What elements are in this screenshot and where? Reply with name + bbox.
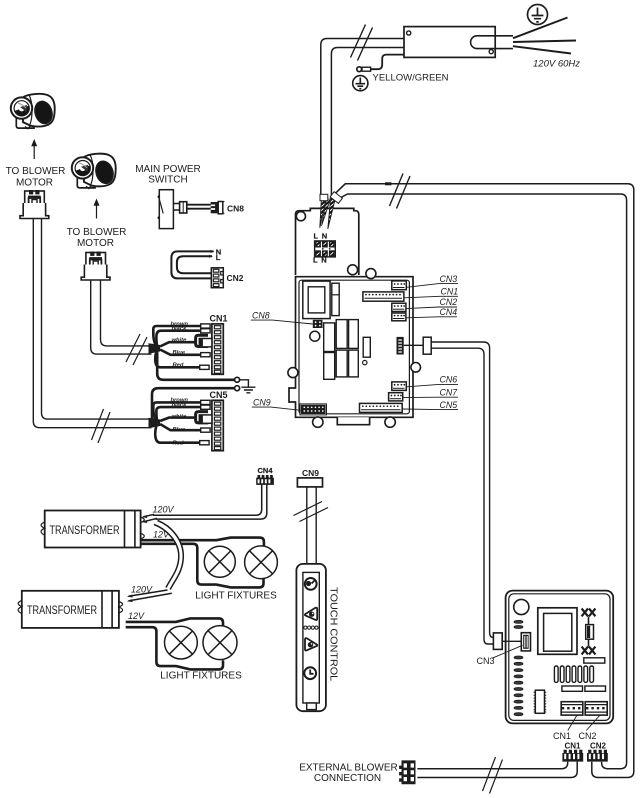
twisted supply wire a	[320, 197, 327, 228]
crystal component	[582, 609, 596, 655]
mounting hole bottom 2	[385, 417, 395, 427]
icon power	[305, 578, 317, 590]
svg-text:N: N	[322, 232, 327, 241]
tick on upper right wire	[385, 182, 392, 185]
mounting hole A	[348, 265, 358, 275]
transformer on PCB	[303, 281, 330, 319]
connector CN9 on PCB	[300, 404, 327, 415]
wire black CN5	[156, 407, 200, 420]
relay B2	[336, 350, 347, 377]
pin red CN5	[200, 441, 209, 445]
wire blue CN5	[160, 424, 201, 430]
svg-text:CN8: CN8	[252, 310, 270, 320]
connector CN4 on PCB	[392, 313, 406, 321]
svg-text:TRANSFORMER: TRANSFORMER	[27, 603, 97, 617]
label CN4 italic with leader	[406, 307, 457, 318]
cable grommet	[471, 36, 513, 49]
switch stem	[173, 204, 179, 211]
svg-text:Blue: Blue	[173, 350, 186, 356]
svg-text:MOTOR: MOTOR	[77, 238, 114, 249]
svg-text:CN2: CN2	[579, 731, 597, 741]
pads top	[514, 620, 523, 628]
SECTION: top power entry	[321, 5, 634, 778]
mounting hole top box	[296, 212, 305, 221]
mounting hole bottom 1	[313, 417, 323, 427]
lamp 2b	[203, 626, 237, 660]
pin black	[201, 329, 210, 333]
connector CN3 on PCB	[392, 281, 407, 290]
blower motor 2	[72, 154, 116, 189]
main PCB outer	[289, 277, 413, 418]
svg-text:CN5: CN5	[210, 390, 228, 400]
cable break marks top	[351, 25, 373, 61]
mounting hole left	[288, 368, 298, 378]
display square outer	[538, 608, 577, 655]
break marks ext wires	[483, 757, 503, 794]
svg-text:white: white	[172, 414, 188, 420]
ring terminal	[362, 67, 371, 71]
power entry box	[404, 27, 495, 58]
wire sleeve	[320, 194, 328, 200]
pin white terminal CN5	[199, 415, 212, 423]
connector CN1 external	[562, 750, 583, 762]
wire blue CN1	[160, 350, 201, 355]
resistor array	[554, 666, 593, 682]
wires CN1 ext to external blower	[417, 762, 567, 769]
jumper loop CN1	[196, 335, 208, 346]
SECTION: main control unit	[251, 192, 494, 644]
svg-text:CN3: CN3	[440, 274, 458, 284]
svg-text:CN1: CN1	[441, 287, 459, 297]
switch contacts and blade	[158, 195, 161, 198]
lamp 1a	[204, 546, 235, 577]
relay C1	[349, 320, 359, 349]
svg-text:CN1: CN1	[210, 314, 228, 324]
svg-text:L: L	[313, 256, 318, 265]
svg-text:CONNECTION: CONNECTION	[314, 773, 381, 784]
transformer 1 120V leads	[143, 514, 157, 521]
display square inner	[544, 613, 572, 651]
svg-text:Blue: Blue	[173, 427, 186, 433]
svg-text:TOUCH CONTROL: TOUCH CONTROL	[328, 587, 340, 681]
rect below crystal	[584, 658, 605, 663]
svg-text:black: black	[172, 403, 188, 409]
svg-text:TRANSFORMER: TRANSFORMER	[50, 523, 120, 537]
SECTION: left motors and switch	[6, 94, 245, 443]
touch control bottom tab	[307, 703, 317, 710]
connector CN5 strip	[212, 400, 223, 450]
12V pair upper fixture bottom bus	[142, 544, 264, 588]
touch control panel	[303, 572, 319, 703]
label CN2 italic with leader	[406, 297, 457, 308]
jumper loop CN5	[196, 412, 208, 423]
relay A2	[324, 353, 335, 380]
motor plug 2	[81, 252, 110, 281]
icon dots row	[304, 626, 318, 629]
12V pair lower fixture top bus	[126, 618, 223, 625]
break marks touch wires	[294, 502, 329, 522]
svg-text:YELLOW/GREEN: YELLOW/GREEN	[373, 73, 449, 84]
pin blue CN5	[201, 428, 210, 432]
svg-text:CN3: CN3	[477, 656, 495, 666]
touch control wires	[307, 487, 316, 564]
connector CN9 floating	[297, 478, 322, 487]
connector CN8 on PCB	[313, 320, 323, 328]
wire to CN3	[502, 640, 521, 642]
pin black CN5	[201, 405, 210, 409]
wire L from power box to left corner and down	[321, 39, 404, 198]
lamp 2a	[165, 626, 198, 659]
CN4 wires down	[153, 485, 262, 516]
SECTION: touch control	[294, 468, 340, 711]
ground symbol yellow/green	[353, 76, 368, 91]
svg-text:CN4: CN4	[258, 466, 274, 475]
wire brown CN1	[153, 326, 200, 345]
svg-text:LIGHT FIXTURES: LIGHT FIXTURES	[160, 671, 242, 682]
svg-text:CN9: CN9	[253, 397, 271, 407]
svg-text:TO BLOWER: TO BLOWER	[67, 227, 127, 238]
ground symbol mains	[528, 5, 548, 25]
board2 inner	[509, 594, 610, 721]
svg-text:Red: Red	[173, 441, 184, 447]
ground wire from CN5 bundle	[152, 388, 235, 419]
wire N from power box to left corner and down	[331, 48, 404, 198]
svg-text:CN6: CN6	[440, 375, 458, 385]
yellow/green earth wire	[371, 55, 404, 70]
icon clock	[304, 667, 316, 679]
wire white CN1	[160, 342, 196, 346]
svg-text:white: white	[172, 337, 188, 343]
wire from mid-right connector	[404, 344, 424, 346]
relay C2	[349, 350, 359, 377]
svg-text:MOTOR: MOTOR	[16, 178, 53, 189]
mains terminal block	[315, 241, 336, 257]
svg-text:L: L	[216, 253, 221, 262]
svg-text:CN9: CN9	[302, 468, 319, 478]
control enclosure top box	[296, 208, 359, 275]
transformer 2 mount tabs	[18, 600, 22, 613]
twisted supply wire b	[328, 197, 336, 230]
ring terminal 1	[235, 377, 240, 382]
svg-text:120V: 120V	[153, 505, 175, 515]
main PCB inner border	[299, 280, 409, 414]
transformer 2 box	[22, 591, 119, 628]
transformer 2 120V leads	[129, 590, 172, 601]
pin white terminal	[199, 339, 212, 347]
mains cord 3-wire fan	[513, 18, 576, 54]
svg-text:L: L	[314, 232, 319, 241]
12V pair upper fixture top bus	[142, 538, 264, 547]
touch control body	[296, 564, 326, 711]
N L loop wire N	[171, 251, 213, 278]
leader CN2 board2	[586, 715, 600, 730]
wire labels CN1	[171, 321, 189, 368]
label CN1 italic with leader	[404, 287, 458, 298]
transformer 1 mount tabs	[41, 522, 45, 535]
connector CN4 floating	[256, 475, 274, 485]
svg-text:CN7: CN7	[440, 387, 459, 397]
small hole	[363, 360, 367, 364]
transformer 1 box	[45, 511, 141, 548]
ground symbol mid	[240, 380, 256, 393]
connector CN1 strip	[212, 324, 223, 374]
connector CN7 on PCB	[389, 393, 403, 401]
mounting hole B	[366, 269, 376, 279]
wire white CN5	[160, 418, 196, 421]
screw hole top-left	[407, 31, 411, 35]
motor plug 1	[20, 190, 49, 219]
12V pair lower fixture bottom bus	[126, 627, 223, 669]
cable into CN1 bundle	[149, 343, 161, 354]
main PCB bottom tab	[337, 417, 369, 424]
main power switch body	[159, 190, 173, 229]
svg-text:TO BLOWER: TO BLOWER	[6, 166, 66, 177]
inline component	[423, 337, 431, 354]
ground wire from CN1 bundle	[157, 352, 234, 380]
svg-text:CN2: CN2	[590, 742, 607, 751]
svg-text:black: black	[172, 326, 188, 332]
icon fan triangle down	[305, 638, 317, 650]
label CN6 italic with leader	[407, 375, 459, 387]
wire labels CN5	[171, 398, 189, 447]
two pads rects	[562, 686, 583, 691]
plug CN8	[211, 201, 225, 214]
pin blue	[201, 353, 210, 357]
screw hole bottom-right	[489, 50, 493, 54]
connector CN1 on PCB	[363, 292, 404, 301]
arrow ticks N L	[209, 250, 215, 258]
connector CN3 on board2	[521, 633, 530, 651]
relay A1	[324, 323, 335, 352]
board2 outer	[506, 591, 614, 724]
board2 mounting hole	[514, 599, 529, 614]
wire brown CN5	[153, 402, 200, 419]
svg-text:LIGHT FIXTURES: LIGHT FIXTURES	[195, 591, 277, 602]
motor 2 wires down	[91, 280, 152, 354]
SECTION: second board	[299, 591, 613, 794]
svg-text:CN5: CN5	[440, 400, 458, 410]
svg-text:CN1: CN1	[565, 742, 582, 751]
hole below CN8	[310, 331, 320, 341]
svg-text:120V 60Hz: 120V 60Hz	[533, 59, 580, 70]
svg-text:CN2: CN2	[227, 273, 244, 283]
connector CN1 on board2	[561, 702, 583, 715]
svg-text:CN8: CN8	[227, 204, 244, 214]
small component	[363, 337, 370, 357]
connector CN5 on PCB	[360, 403, 403, 412]
cable break marks right pair	[390, 174, 411, 209]
DIP IC	[534, 690, 547, 713]
wire hop arc band	[154, 521, 183, 590]
relay B1	[336, 320, 347, 349]
svg-text:Red: Red	[173, 363, 184, 369]
mounting hole right	[411, 363, 421, 373]
connector CN6 on PCB	[392, 382, 407, 391]
wire pair to board2 CN3 upper	[431, 342, 493, 637]
arrow to motor 1	[33, 146, 35, 160]
ring terminal 2	[235, 386, 240, 391]
pin brown	[201, 324, 210, 328]
ferrule bead	[180, 202, 187, 213]
SECTION: bundles CN1 CN5	[149, 314, 256, 451]
svg-text:N: N	[321, 256, 326, 265]
connector CN2 on board2	[585, 702, 607, 715]
break marks motor1 cable	[92, 409, 111, 443]
lamp 1b	[245, 546, 278, 579]
wire red CN5	[155, 426, 199, 443]
icon fan triangle up	[305, 608, 317, 620]
pin red	[200, 365, 209, 369]
external connector to CN3	[493, 633, 502, 650]
svg-text:MAIN POWER: MAIN POWER	[135, 164, 201, 175]
SECTION: transformers lights	[18, 466, 277, 682]
plug CN2	[211, 268, 223, 288]
svg-text:CN1: CN1	[553, 731, 571, 741]
wire pair to right edge and down right side	[331, 184, 634, 778]
blower motor 1	[11, 94, 55, 129]
svg-text:SWITCH: SWITCH	[148, 174, 187, 185]
wire sleeve slanted	[330, 192, 342, 204]
N L loop wire L	[177, 256, 212, 273]
arrow to motor 2	[96, 205, 98, 219]
label CN8 italic with leader	[251, 310, 313, 324]
external blower connector	[399, 760, 415, 784]
motor 1 wires down left side	[33, 219, 151, 428]
label CN7 italic with leader	[403, 387, 458, 397]
leader CN1 board2	[568, 715, 577, 730]
switch cable	[187, 205, 211, 209]
svg-text:CN2: CN2	[440, 297, 458, 307]
capacitor on PCB	[332, 283, 339, 315]
cable into CN5 bundle	[149, 418, 161, 429]
label CN3 italic with leader	[407, 274, 459, 288]
svg-text:CN4: CN4	[440, 307, 458, 317]
label CN9 italic with leader	[252, 397, 301, 410]
wire black CN1	[156, 331, 200, 346]
pads column	[514, 656, 523, 716]
wire red CN1	[155, 351, 199, 367]
break marks motor2 cable	[126, 334, 147, 365]
connector CN2 on PCB	[392, 303, 406, 311]
wire pair to board2 CN3 lower	[431, 348, 493, 644]
connector mid-right on PCB	[397, 337, 404, 355]
pin brown CN5	[201, 400, 210, 404]
svg-text:12V: 12V	[128, 611, 145, 621]
label CN5 italic with leader	[402, 400, 458, 410]
connector CN2 external	[587, 750, 608, 762]
